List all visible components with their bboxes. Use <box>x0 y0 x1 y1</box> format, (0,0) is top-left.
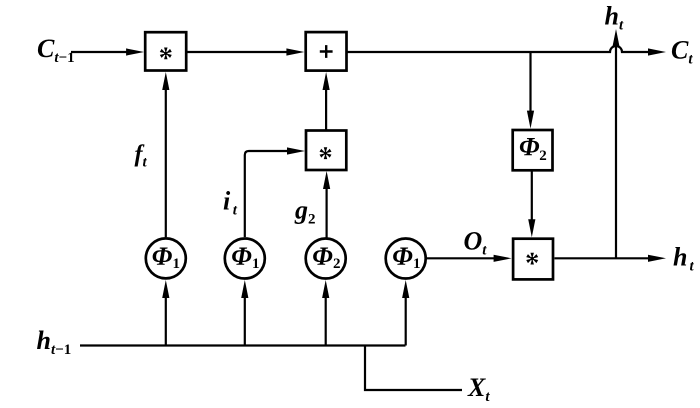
arrowhead into box2 <box>286 48 304 55</box>
wire h(t-1) bus <box>80 344 406 346</box>
circle Phi2 c <box>306 239 346 279</box>
circle Phi1 a <box>146 238 186 278</box>
arrowhead into box3 left (i) <box>287 147 305 154</box>
arrowhead up into box2 <box>323 72 330 90</box>
wire Xt step <box>365 346 462 391</box>
wire branch down to Phi2 box <box>529 53 531 111</box>
svg-text:1: 1 <box>413 256 421 272</box>
wire bus arrow up circle4 <box>405 297 407 346</box>
arrowhead Ct <box>648 48 666 55</box>
arrowhead up into circle4 <box>402 280 409 298</box>
arrowhead down into box4 <box>528 219 535 237</box>
svg-text:Φ: Φ <box>312 242 333 271</box>
wire bus arrow up circle2 <box>244 297 246 346</box>
arrowhead up into circle3 <box>322 280 329 298</box>
arrowhead up into box3 (g) <box>323 171 330 189</box>
wire Phi2 box down to box4 <box>531 170 533 220</box>
wire vertical ht branch up <box>615 46 617 258</box>
arrowhead up into circle1 <box>162 280 169 298</box>
arrowhead ht right <box>648 255 666 262</box>
box3 multiply middle <box>306 131 346 171</box>
asterisk in box3 <box>320 147 332 159</box>
wire O: circle4 to box4 <box>427 257 495 259</box>
arrowhead into box4 left (O) <box>494 255 512 262</box>
svg-text:1: 1 <box>173 256 181 272</box>
arrowhead ht top <box>612 29 619 47</box>
circle Phi1 d <box>386 239 426 279</box>
arrowhead down into Phi2 box <box>527 111 534 129</box>
circle Phi1 b <box>225 239 265 279</box>
arrowhead up into box1 (f) <box>162 72 169 90</box>
plus symbol in box2 <box>320 45 333 58</box>
box Phi2 <box>513 130 553 170</box>
box4 multiply right <box>513 239 553 280</box>
asterisk in box4 <box>526 253 538 265</box>
wire bus arrow up circle3 <box>325 297 327 346</box>
wire box1 to box2 <box>187 51 288 53</box>
wire box4 out to ht right <box>555 257 651 259</box>
wire f: circle1 up to box1 <box>165 89 167 237</box>
svg-text:Φ: Φ <box>152 242 173 271</box>
wire box2 to Ct with hop over vertical <box>347 46 650 52</box>
wire i: circle2 up then right into box3 <box>245 151 290 237</box>
svg-text:2: 2 <box>539 148 547 164</box>
arrowhead into box1 <box>126 48 144 55</box>
wire box3 up to box2 <box>325 89 327 131</box>
box1 multiply <box>145 32 186 70</box>
box2 add <box>306 32 347 71</box>
arrowhead up into circle2 <box>241 280 248 298</box>
svg-text:1: 1 <box>252 256 260 272</box>
svg-text:Φ: Φ <box>231 242 252 271</box>
svg-text:Φ: Φ <box>519 132 540 161</box>
asterisk in box1 <box>160 48 172 60</box>
svg-text:2: 2 <box>333 256 341 272</box>
wire g: circle3 up to box3 <box>326 189 328 239</box>
svg-text:Φ: Φ <box>392 242 413 271</box>
wire C(t-1) to box1 <box>71 51 128 53</box>
wire bus arrow up circle1 <box>165 297 167 346</box>
